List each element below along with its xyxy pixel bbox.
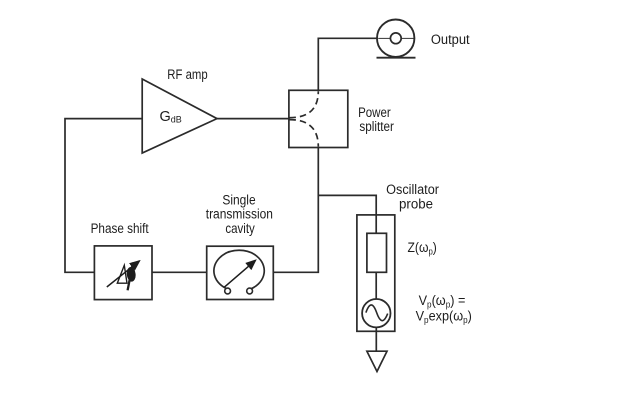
svg-text:cavity: cavity [225,220,255,236]
svg-text:RF amp: RF amp [167,66,207,82]
svg-text:splitter: splitter [359,118,394,134]
svg-text:Phase shift: Phase shift [91,220,149,236]
svg-text:Vpexp(ωp): Vpexp(ωp) [416,308,472,325]
svg-text:Z(ωp): Z(ωp) [408,239,437,256]
svg-text:Oscillator: Oscillator [386,181,439,197]
svg-text:Output: Output [431,31,470,47]
svg-text:probe: probe [399,196,433,211]
